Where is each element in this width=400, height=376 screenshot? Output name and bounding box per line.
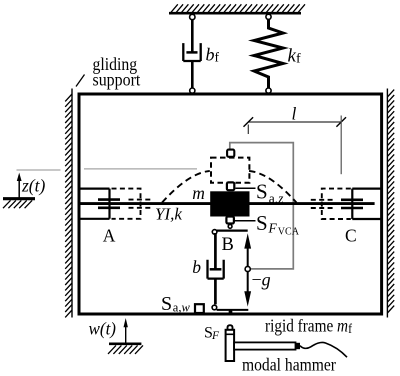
svg-text:S: S	[256, 211, 268, 235]
svg-text:B: B	[222, 235, 234, 255]
beam YI,k	[81, 202, 375, 205]
svg-text:F: F	[268, 221, 278, 236]
mode shape curve left (dashed)	[162, 171, 210, 203]
sensor Sa,w	[195, 304, 204, 313]
datum line inside frame	[84, 168, 197, 170]
ground symbol z	[3, 199, 35, 209]
node circle left of B	[212, 230, 217, 235]
svg-text:a,w: a,w	[173, 301, 191, 315]
leader Sa,z	[236, 187, 256, 189]
svg-text:−g: −g	[252, 270, 271, 290]
svg-text:S: S	[256, 180, 268, 204]
ground symbol w	[108, 344, 143, 354]
pivot circle below SFvca	[228, 225, 232, 229]
rigid frame rectangle	[79, 94, 382, 314]
svg-text:m: m	[192, 183, 205, 203]
sensor Sa,z	[227, 182, 234, 190]
nub to frame bottom	[229, 310, 233, 314]
damper b	[208, 233, 224, 304]
svg-text:S: S	[161, 293, 172, 315]
svg-text:YI,k: YI,k	[155, 205, 182, 224]
mass m block	[210, 191, 249, 216]
damper bf	[183, 20, 200, 88]
svg-text:b: b	[192, 257, 201, 277]
svg-text:rigid frame mf: rigid frame mf	[265, 316, 352, 337]
ceiling support (hatched)	[169, 4, 305, 13]
modal hammer	[226, 325, 347, 361]
svg-text:kf: kf	[288, 46, 301, 67]
z(t) arrow	[17, 173, 22, 198]
bottom node line	[217, 309, 249, 311]
spring kf top circle	[266, 14, 271, 19]
gravity arrow -g	[244, 233, 251, 306]
spring kf	[254, 19, 283, 88]
svg-text:A: A	[103, 226, 116, 246]
damper bf top attachment circle	[190, 14, 195, 19]
support A ghost (dashed)	[112, 189, 152, 219]
node line under mass	[217, 230, 248, 232]
svg-text:F: F	[211, 330, 220, 342]
svg-text:bf: bf	[206, 45, 220, 65]
w(t) arrow	[124, 318, 128, 343]
svg-text:C: C	[345, 225, 357, 245]
support C clamp	[341, 189, 381, 219]
leader line to gliding support	[76, 75, 85, 87]
support C ghost (dashed)	[311, 189, 351, 219]
mode shape curve right (dashed)	[249, 171, 297, 203]
svg-text:z(t): z(t)	[21, 176, 45, 197]
svg-text:l: l	[292, 104, 297, 124]
sensor square on VCA top	[227, 150, 234, 157]
right gliding surface hatched strip	[387, 89, 394, 318]
VCA dashed box	[211, 158, 249, 183]
svg-text:w(t): w(t)	[89, 319, 117, 340]
z(t) datum line outside	[17, 169, 61, 171]
svg-text:support: support	[93, 70, 141, 90]
gray wire from sensor to -g node	[230, 143, 293, 269]
left gliding surface hatched strip	[65, 89, 72, 318]
svg-text:modal hammer: modal hammer	[242, 354, 336, 374]
spring kf bottom circle	[266, 88, 271, 93]
leader SFvca	[235, 220, 256, 222]
damper b bottom circle	[212, 305, 217, 310]
support A clamp	[81, 189, 121, 219]
dimension l line	[244, 116, 347, 175]
svg-text:VCA: VCA	[278, 227, 300, 238]
sensor SFvca	[226, 217, 234, 224]
svg-text:a,z: a,z	[269, 191, 284, 206]
damper bf bottom circle	[190, 88, 195, 93]
